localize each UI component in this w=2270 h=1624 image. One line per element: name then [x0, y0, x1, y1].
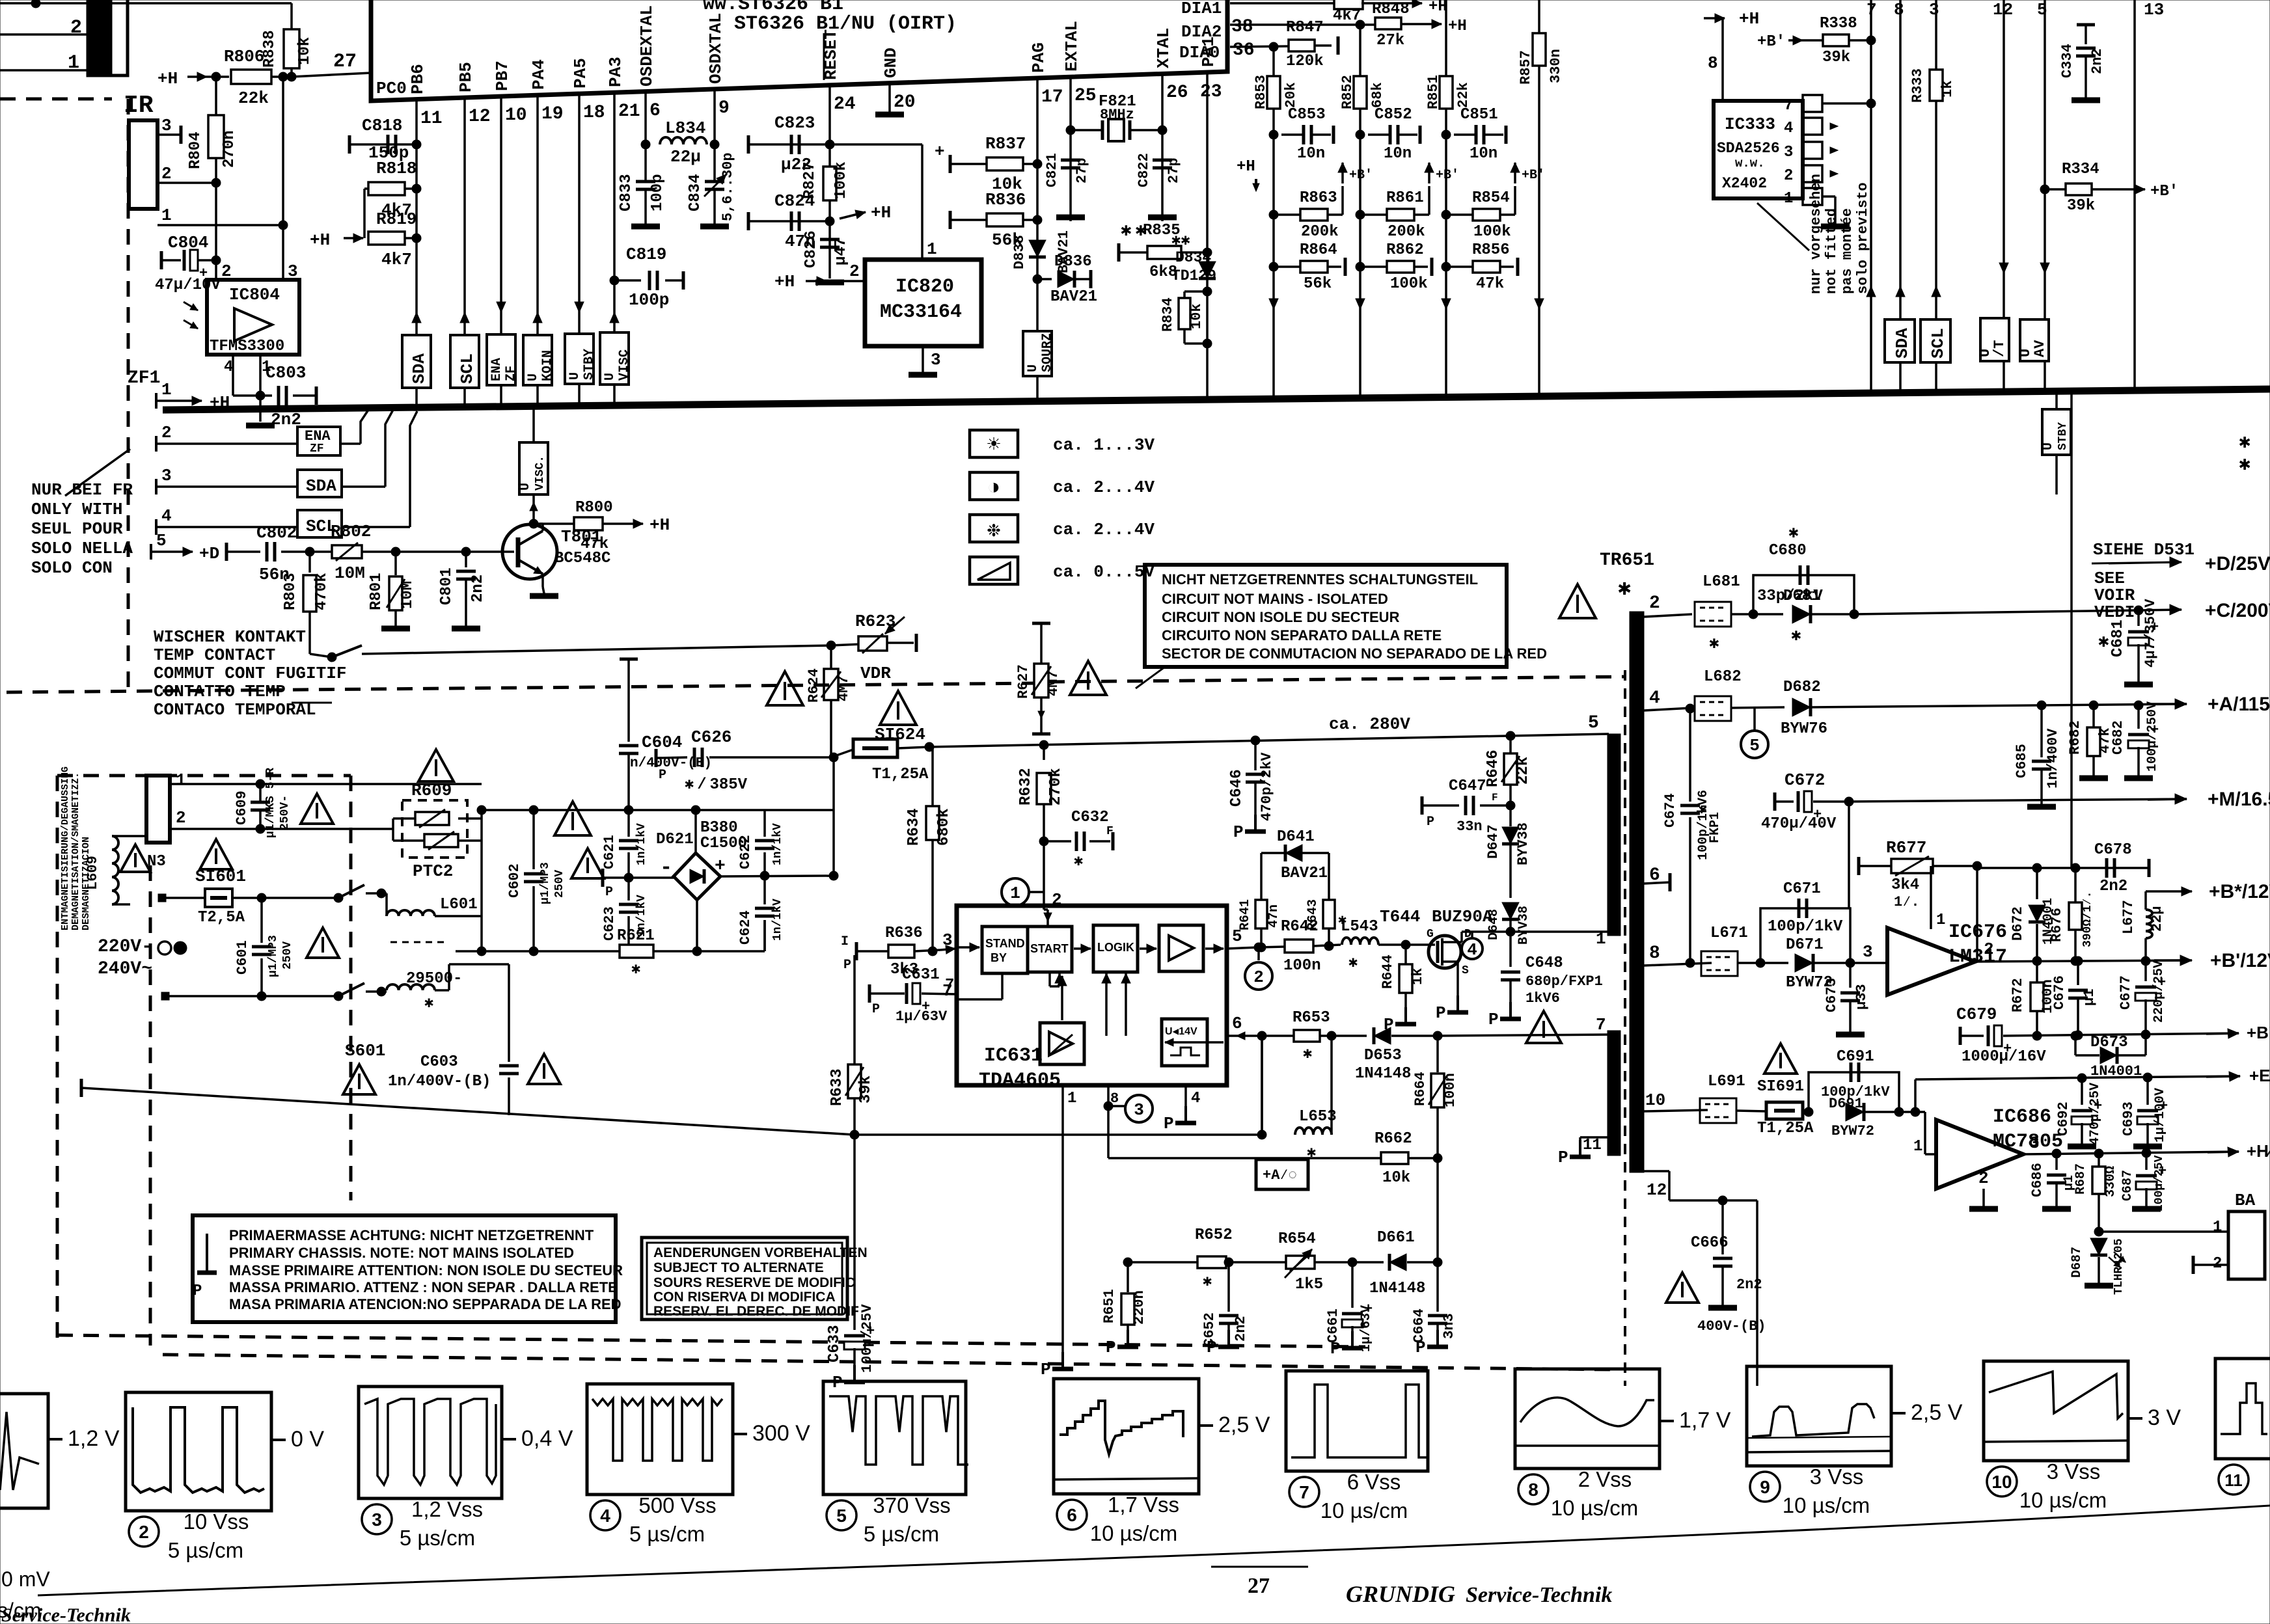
- transistor T801 BC548C: [396, 524, 610, 596]
- svg-text:U: U: [2041, 442, 2056, 450]
- svg-text:27k: 27k: [1376, 32, 1404, 49]
- fuse SI691 T1,25A: [1757, 1044, 1814, 1137]
- svg-text:1k: 1k: [1939, 81, 1956, 98]
- output +M/16.5V: [2148, 789, 2270, 810]
- svg-text:-: -: [660, 856, 672, 880]
- svg-text:2n2: 2n2: [2099, 878, 2127, 895]
- IC pin labels DIA right side: [1179, 0, 1255, 62]
- capacitor C679 1000u/16V: [1956, 1005, 2239, 1066]
- svg-text:+H: +H: [1739, 9, 1759, 29]
- svg-text:3: 3: [1784, 144, 1793, 161]
- svg-text:3: 3: [161, 466, 172, 485]
- asterisks near R835: [1121, 221, 1146, 241]
- wire UVISC box to R800 junction: [518, 406, 548, 528]
- svg-text:120k: 120k: [1286, 53, 1324, 70]
- svg-text:PRIMARY CHASSIS. NOTE: NOT MAI: PRIMARY CHASSIS. NOTE: NOT MAINS ISOLATE…: [229, 1245, 574, 1261]
- degauss coil L609: [85, 836, 150, 904]
- inductor L681: [1695, 573, 1783, 653]
- svg-text:P: P: [1436, 1003, 1446, 1023]
- svg-text:µ1/MP3: µ1/MP3: [267, 935, 280, 977]
- svg-text:R627: R627: [1015, 664, 1032, 699]
- svg-text:240V~: 240V~: [98, 959, 152, 979]
- warning triangle near C602: [571, 848, 604, 878]
- svg-text:10n: 10n: [1384, 145, 1412, 163]
- svg-text:10 µs/cm: 10 µs/cm: [1783, 1493, 1870, 1517]
- block STAND BY: [982, 927, 1028, 973]
- svg-text:D834: D834: [1175, 249, 1211, 266]
- svg-text:BAV21: BAV21: [1281, 865, 1328, 882]
- svg-text:C652: C652: [1201, 1312, 1218, 1347]
- svg-text:NUR BEI FR: NUR BEI FR: [31, 480, 133, 500]
- svg-text:✱: ✱: [1203, 1273, 1212, 1291]
- svg-text:ZF: ZF: [504, 366, 519, 381]
- capacitor C666 2n2 400V: [1644, 1171, 1766, 1386]
- wire connector to R838: [36, 2, 292, 5]
- capacitor C652 2n2: [1201, 1258, 1287, 1357]
- svg-text:22k: 22k: [1455, 82, 1471, 108]
- svg-text:R632: R632: [1017, 768, 1035, 805]
- svg-text:VEDI: VEDI: [2094, 602, 2135, 622]
- wire XTAL pin 26 down: [1161, 74, 1164, 221]
- svg-text:2: 2: [1984, 940, 1994, 959]
- svg-text:SI691: SI691: [1757, 1078, 1804, 1096]
- capacitor C622 1n/1kV: [737, 810, 784, 880]
- svg-text:C648: C648: [1525, 954, 1563, 972]
- svg-text:3: 3: [1863, 942, 1873, 962]
- svg-text:36: 36: [1233, 40, 1255, 61]
- capacitor C672 470u/40V: [1761, 770, 1853, 908]
- svg-text:47n: 47n: [1266, 904, 1281, 928]
- svg-text:27p: 27p: [1074, 157, 1090, 183]
- output +B*/12V: [2146, 881, 2270, 902]
- svg-text:L653: L653: [1299, 1108, 1337, 1126]
- block LOGIK: [1093, 925, 1138, 972]
- resistor R634 680k: [905, 747, 953, 956]
- svg-text:P: P: [1558, 1148, 1568, 1167]
- svg-text:☀: ☀: [987, 434, 1000, 459]
- wire DIA1 + resistor 4k7: [1230, 0, 1447, 25]
- trimmer capacitor C834 5.6..30p: [687, 89, 736, 226]
- capacitor C624 1n/1kV: [737, 876, 784, 951]
- capacitor C602: [506, 810, 566, 956]
- svg-text:1: 1: [1936, 912, 1945, 929]
- svg-text:ca. 2...4V: ca. 2...4V: [1053, 520, 1155, 539]
- svg-text:1: 1: [1784, 190, 1793, 208]
- svg-text:1: 1: [1596, 929, 1606, 949]
- svg-text:R836: R836: [985, 190, 1026, 210]
- wire + box ENA ZF (PB7 pin 10): [487, 96, 519, 407]
- svg-text:680k: 680k: [935, 808, 953, 846]
- capacitor C623 1n/1kV: [601, 878, 648, 956]
- svg-text:R334: R334: [2062, 161, 2099, 178]
- capacitor C631 1u/63V: [869, 966, 957, 1025]
- svg-text:6 Vss: 6 Vss: [1347, 1470, 1401, 1494]
- svg-text:ST6326 B1/NU (OIRT): ST6326 B1/NU (OIRT): [734, 13, 957, 35]
- svg-text:R861: R861: [1386, 189, 1424, 207]
- svg-text:LOGIK: LOGIK: [1097, 941, 1134, 954]
- diode D648 BYV38: [1486, 902, 1531, 945]
- svg-text:C691: C691: [1837, 1048, 1874, 1066]
- svg-text:DEMAGNETISATION/SMAGNETIZZ.: DEMAGNETISATION/SMAGNETIZZ.: [70, 772, 81, 930]
- svg-text:CON RISERVA DI MODIFICA: CON RISERVA DI MODIFICA: [653, 1290, 836, 1305]
- resistor R677 3k4 1%: [1859, 838, 1982, 962]
- svg-text:C801: C801: [438, 567, 456, 605]
- svg-text:✱: ✱: [2098, 632, 2109, 653]
- svg-text:22µ: 22µ: [2149, 906, 2165, 932]
- svg-text:P: P: [1041, 1360, 1051, 1379]
- svg-text:680p/FXP1: 680p/FXP1: [1525, 973, 1603, 990]
- svg-text:COMMUT CONT FUGITIF: COMMUT CONT FUGITIF: [154, 664, 346, 683]
- svg-text:SDA: SDA: [409, 353, 429, 384]
- svg-text:C833: C833: [618, 174, 635, 211]
- svg-text:µ1: µ1: [2081, 989, 2098, 1006]
- resistor R642 100n: [1259, 918, 1341, 975]
- svg-text:L834: L834: [665, 118, 705, 138]
- svg-text:8: 8: [1110, 1090, 1119, 1107]
- warning triangle left of R624: [767, 671, 803, 705]
- IC631 internal arrows: [957, 943, 1224, 1046]
- svg-text:CIRCUIT NON ISOLE DU SECTEUR: CIRCUIT NON ISOLE DU SECTEUR: [1162, 609, 1400, 625]
- svg-text:C803: C803: [266, 363, 306, 383]
- crystal F821 8MHz: [1066, 93, 1167, 141]
- wire drain to transformer pin1: [1596, 929, 1606, 949]
- svg-text:SOURZ: SOURZ: [1040, 333, 1055, 372]
- svg-text:MC33164: MC33164: [880, 301, 962, 323]
- svg-text:L691: L691: [1708, 1073, 1745, 1090]
- svg-text:22k: 22k: [238, 88, 269, 108]
- svg-text:✱: ✱: [1618, 577, 1631, 602]
- IC631 pin5 right: [1227, 927, 1263, 952]
- svg-text:ENA: ENA: [489, 358, 504, 381]
- svg-text:AENDERUNGEN VORBEHALTEN: AENDERUNGEN VORBEHALTEN: [653, 1245, 868, 1260]
- capacitor C680 33p/2kV: [1749, 523, 1854, 619]
- svg-text:9: 9: [1760, 1477, 1770, 1497]
- svg-text:C687: C687: [2120, 1170, 2135, 1201]
- svg-text:3: 3: [161, 116, 172, 135]
- pointer line NUR BEI FR: [65, 449, 130, 496]
- svg-text:D836: D836: [1054, 253, 1092, 271]
- capacitor C601: [234, 898, 339, 996]
- inductor L671: [1701, 925, 1788, 976]
- svg-text:C677: C677: [2118, 975, 2134, 1010]
- svg-text:8: 8: [1528, 1480, 1538, 1500]
- temp contact switch: [310, 645, 362, 662]
- svg-text:4: 4: [600, 1506, 610, 1526]
- svg-text:25: 25: [1074, 86, 1097, 106]
- svg-text:PA3: PA3: [606, 57, 625, 87]
- svg-text:C824: C824: [774, 191, 815, 211]
- svg-text:1n/1kV: 1n/1kV: [635, 823, 648, 865]
- svg-text:C609: C609: [234, 791, 250, 825]
- svg-text:7: 7: [1299, 1482, 1309, 1502]
- svg-text:✱: ✱: [1074, 853, 1083, 871]
- svg-text:R609: R609: [411, 781, 452, 800]
- svg-text:SECTOR DE CONMUTACION NO SEPAR: SECTOR DE CONMUTACION NO SEPARADO DE LA …: [1162, 645, 1547, 662]
- svg-text:330n: 330n: [1548, 49, 1564, 83]
- IR pin 3: [157, 116, 181, 144]
- svg-text:38: 38: [1231, 17, 1253, 37]
- transformer primary bar lower: [1607, 1031, 1620, 1156]
- resistor R646 22k: [1484, 731, 1532, 810]
- svg-text:C671: C671: [1783, 880, 1821, 898]
- wire PA1 pin 23 down: [1206, 72, 1209, 399]
- mains rail A: [482, 805, 834, 815]
- wire into IC631 pin2: [1044, 890, 1062, 926]
- inductor L601 29500: [381, 893, 509, 1012]
- svg-text:BYW76: BYW76: [1781, 720, 1827, 738]
- svg-text:R634: R634: [905, 808, 923, 846]
- block U 14V comparator: [1162, 1019, 1207, 1066]
- svg-text:L681: L681: [1702, 573, 1740, 591]
- svg-text:C624: C624: [737, 910, 754, 945]
- capacitor C691 100p/1kV: [1804, 1048, 1899, 1116]
- svg-text:200k: 200k: [1301, 223, 1339, 241]
- svg-text:C834: C834: [687, 174, 704, 211]
- svg-text:D653: D653: [1364, 1047, 1402, 1064]
- asterisks right margin: [2239, 432, 2250, 476]
- svg-text:2n2: 2n2: [1233, 1316, 1249, 1342]
- svg-text:100k: 100k: [1390, 275, 1428, 293]
- wire EXTAL pin 25 down: [1069, 77, 1072, 221]
- svg-text:0 mV: 0 mV: [1, 1567, 50, 1591]
- svg-text:R651: R651: [1101, 1289, 1117, 1323]
- svg-text:SIEHE D531: SIEHE D531: [2093, 540, 2195, 560]
- svg-text:SI624: SI624: [875, 725, 925, 744]
- IC686 pin2 ground: [1969, 1169, 1998, 1209]
- svg-text:22µ: 22µ: [670, 147, 701, 167]
- svg-text:SOLO NELLA: SOLO NELLA: [31, 539, 133, 558]
- capacitor C821 27p: [1044, 153, 1090, 217]
- svg-text:BYV38: BYV38: [1516, 906, 1531, 945]
- svg-text:SI601: SI601: [195, 867, 246, 886]
- svg-text:C632: C632: [1071, 809, 1109, 826]
- waveform box 6: [1054, 1379, 1270, 1545]
- diode D661 1N4148: [1369, 1229, 1438, 1297]
- svg-text:3k4: 3k4: [1891, 876, 1919, 894]
- svg-text:DIA0: DIA0: [1179, 43, 1220, 62]
- capacitor C603 1n/400V-(B): [388, 964, 560, 1115]
- svg-text:MC7805: MC7805: [1993, 1131, 2063, 1153]
- IC686 output +H/5V line: [2023, 1133, 2270, 1161]
- resistor R837 10k: [935, 134, 1042, 194]
- svg-text:R646: R646: [1484, 750, 1502, 787]
- mains connector N3: [146, 770, 186, 871]
- svg-text:10M: 10M: [335, 563, 365, 583]
- svg-text:26: 26: [1166, 83, 1188, 103]
- long vertical wire right: [2070, 391, 2073, 868]
- svg-text:T1,25A: T1,25A: [1757, 1120, 1814, 1137]
- svg-text:20k: 20k: [1283, 82, 1299, 108]
- ZF1 pin 5 +D: [151, 531, 219, 563]
- svg-text:10 µs/cm: 10 µs/cm: [1551, 1496, 1639, 1520]
- svg-text:5: 5: [1588, 713, 1599, 733]
- svg-text:+H: +H: [210, 393, 230, 413]
- svg-text:R672: R672: [2010, 978, 2026, 1012]
- svg-text:1N4148: 1N4148: [1355, 1065, 1411, 1083]
- svg-text:1∕.: 1∕.: [1894, 894, 1920, 910]
- node 4 circled: [1462, 932, 1483, 960]
- output +D/25V arrowtext: [2205, 553, 2270, 575]
- capacitor C826 u47: [802, 230, 850, 268]
- svg-text:C826: C826: [802, 230, 820, 268]
- svg-text:R802: R802: [331, 522, 371, 541]
- svg-text:STBY: STBY: [582, 349, 597, 380]
- svg-text:BYV38: BYV38: [1515, 822, 1531, 865]
- svg-text:SEUL POUR: SEUL POUR: [31, 519, 123, 539]
- svg-text:4k7: 4k7: [381, 250, 412, 269]
- svg-text:R644: R644: [1380, 954, 1396, 989]
- diode D834 TD129: [1171, 232, 1216, 284]
- wire LM317 output: [1975, 940, 2188, 966]
- svg-text:BY: BY: [991, 951, 1007, 964]
- svg-text:3 V: 3 V: [2148, 1405, 2181, 1430]
- svg-text:10: 10: [1645, 1090, 1665, 1110]
- diode D672 1N4001: [2010, 868, 2056, 961]
- svg-text:R834: R834: [1160, 297, 1176, 332]
- svg-text:DIA2: DIA2: [1181, 22, 1222, 42]
- svg-text:R818: R818: [376, 159, 417, 178]
- svg-text:5 µs/cm: 5 µs/cm: [864, 1522, 939, 1546]
- resistor R802 10M: [310, 522, 396, 583]
- svg-text:+B'/12V: +B'/12V: [2210, 950, 2270, 971]
- svg-text:24: 24: [834, 94, 856, 115]
- svg-text:R654: R654: [1278, 1230, 1316, 1248]
- svg-text:ZF: ZF: [310, 442, 324, 455]
- svg-text:250V: 250V: [281, 941, 294, 969]
- svg-text:12: 12: [1647, 1180, 1667, 1200]
- svg-text:◑: ◑: [987, 476, 1000, 501]
- svg-text:C666: C666: [1691, 1234, 1729, 1252]
- svg-text:1: 1: [2213, 1219, 2222, 1236]
- svg-text:2: 2: [161, 164, 172, 183]
- resistor R801 10M: [368, 547, 417, 629]
- svg-text:Service-Technik: Service-Technik: [1, 1604, 131, 1624]
- svg-text:PAG: PAG: [1029, 42, 1048, 73]
- svg-text:+D: +D: [199, 544, 219, 563]
- capacitor C692 470u/25V: [2055, 1078, 2103, 1146]
- svg-text:C802: C802: [256, 523, 297, 543]
- wire PAG pin 17 down: [1023, 78, 1055, 401]
- svg-text:1: 1: [161, 380, 172, 399]
- svg-text:/T: /T: [1991, 340, 2008, 357]
- svg-text:2: 2: [70, 17, 82, 39]
- svg-text:C681: C681: [2109, 619, 2127, 657]
- svg-text:400V-(B): 400V-(B): [1697, 1318, 1766, 1334]
- resistor R804 270n: [187, 77, 238, 182]
- svg-text:PRIMAERMASSE ACHTUNG: NICHT NE: PRIMAERMASSE ACHTUNG: NICHT NETZGETRENNT: [229, 1227, 594, 1243]
- svg-text:2: 2: [1253, 968, 1264, 987]
- wire + box U VISC (PA3 pin 21): [600, 92, 632, 405]
- svg-text:TR651: TR651: [1600, 550, 1654, 571]
- svg-text:✱: ✱: [631, 961, 640, 979]
- svg-text:C821: C821: [1044, 153, 1060, 187]
- svg-text:10: 10: [505, 105, 527, 126]
- svg-text:1k: 1k: [1410, 968, 1426, 985]
- resistor R664 100n: [1412, 1036, 1458, 1163]
- svg-text:D672: D672: [2010, 906, 2026, 941]
- capacitor C609: [234, 768, 292, 838]
- wire C823 to IC820 pin 1: [830, 144, 937, 260]
- svg-text:IC631: IC631: [984, 1045, 1043, 1067]
- svg-text:+: +: [935, 142, 945, 161]
- svg-text:L609: L609: [85, 856, 101, 890]
- IC631 pin8 bottom: [1104, 1085, 1153, 1158]
- wire 13 vertical right: [2135, 0, 2164, 390]
- svg-text:R848: R848: [1372, 1, 1410, 18]
- transistor T644 BUZ90A mosfet: [1380, 907, 1614, 1023]
- IC IC676 LM317: [1887, 921, 2007, 995]
- svg-text:✱: ✱: [424, 995, 433, 1012]
- IC IC686 MC7805: [1936, 1106, 2063, 1189]
- diode D681: [1783, 588, 2143, 645]
- waveform box 1 partial: [0, 1394, 120, 1622]
- connector BA: [2099, 1191, 2265, 1279]
- svg-text:10 µs/cm: 10 µs/cm: [1090, 1521, 1178, 1545]
- svg-text:R863: R863: [1300, 189, 1337, 207]
- IC631 pin4 bottom: [1164, 1085, 1200, 1133]
- vertical note nur vorgesehen not fitted: [1808, 174, 1871, 294]
- capacitor C833 100p: [618, 92, 666, 226]
- wire + box SDA (PB6 pin 11): [402, 100, 431, 407]
- resistor R687 330: [2073, 1154, 2118, 1236]
- svg-text:100n: 100n: [1442, 1073, 1458, 1107]
- svg-text:C686: C686: [2029, 1163, 2045, 1197]
- svg-text:BAV21: BAV21: [1050, 288, 1097, 306]
- IC IC801 ST6326 main microcontroller box: [371, 0, 1227, 101]
- svg-text:100k: 100k: [1473, 223, 1511, 241]
- svg-text:WISCHER KONTAKT: WISCHER KONTAKT: [154, 627, 306, 647]
- svg-text:470µ/40V: 470µ/40V: [1761, 815, 1837, 833]
- svg-text:220µ/25V: 220µ/25V: [2152, 960, 2167, 1023]
- svg-text:+A∕◌: +A∕◌: [1263, 1167, 1297, 1184]
- resistor R334 39k: [2040, 161, 2178, 215]
- svg-text:µ1/MP3: µ1/MP3: [539, 862, 552, 904]
- svg-text:U: U: [567, 372, 582, 380]
- svg-text:R652: R652: [1195, 1226, 1233, 1244]
- svg-text:C692: C692: [2055, 1102, 2072, 1136]
- svg-text:500 Vss: 500 Vss: [638, 1493, 716, 1517]
- svg-text:18: 18: [583, 103, 605, 123]
- svg-text:C822: C822: [1136, 153, 1152, 187]
- wire D691 to IC686 input: [1899, 1107, 1936, 1156]
- svg-text:R851: R851: [1425, 75, 1442, 109]
- diode D673 1N4001: [2071, 1031, 2146, 1079]
- pulldown chain R851 C851 R854 R856: [1425, 0, 1545, 398]
- svg-text:C621: C621: [601, 835, 618, 869]
- svg-text:MASSA PRIMARIO. ATTENZ : NON S: MASSA PRIMARIO. ATTENZ : NON SEPAR . DAL…: [229, 1279, 618, 1295]
- inductor L653: [1257, 1031, 1337, 1162]
- svg-text:0 V: 0 V: [291, 1427, 324, 1452]
- svg-text:N3: N3: [147, 853, 166, 871]
- long ground line left: [81, 1079, 855, 1135]
- svg-text:R333: R333: [1909, 68, 1926, 103]
- svg-text:C678: C678: [2094, 841, 2132, 859]
- svg-text:3: 3: [931, 350, 941, 370]
- resistor R653: [1262, 1009, 1367, 1063]
- svg-text:200k: 200k: [1388, 223, 1425, 241]
- IC820 pin2 +H: [774, 262, 865, 291]
- svg-text:C823: C823: [774, 113, 815, 133]
- svg-text:470p/2kV: 470p/2kV: [1259, 752, 1275, 821]
- svg-text:KOIN: KOIN: [540, 350, 555, 381]
- ZF1 pin 2 ENA ZF: [156, 410, 368, 455]
- transformer primary bar upper: [1607, 734, 1620, 936]
- svg-text:DIA1: DIA1: [1181, 0, 1222, 18]
- wire + box SCL (PB5 pin 12): [450, 98, 479, 407]
- IC IC333 SDA2526 X2402: [1714, 101, 1803, 198]
- svg-text:1: 1: [161, 206, 172, 225]
- svg-text:3n3: 3n3: [1441, 1313, 1457, 1339]
